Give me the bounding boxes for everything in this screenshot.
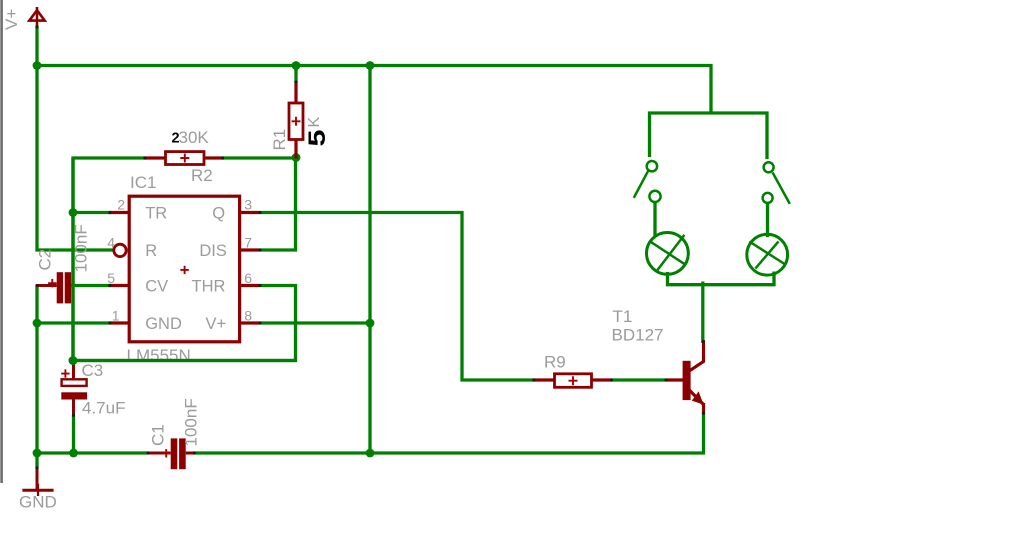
svg-text:TR: TR [145,205,167,223]
pin 8 stub [241,321,260,324]
pin 4 bubble [114,244,126,256]
svg-text:GND: GND [19,493,57,512]
svg-text:V+: V+ [206,315,227,333]
wire TR vertical redrawn over value text [71,158,74,362]
svg-text:30K: 30K [179,128,210,147]
capacitor C2 [36,272,71,303]
svg-text:5: 5 [107,270,115,286]
svg-text:GND: GND [145,315,182,333]
pin 5 stub [110,284,130,287]
node pin8 junction [366,319,375,328]
svg-text:3: 3 [244,197,252,213]
wire GND symbol drop [35,453,38,469]
svg-text:IC1: IC1 [130,173,156,192]
wire pin1 GND to left rail [37,321,111,324]
svg-text:4: 4 [107,235,115,251]
wire switch S1 to lamp LP1 [653,201,656,237]
wire R2 left down the TR net vertical [73,158,147,362]
svg-text:R2: R2 [191,166,213,185]
switch S1 [634,161,661,202]
node V+ rail left junction [33,61,42,70]
node TR junction [69,208,78,217]
pin 6 stub [241,284,260,287]
wire top V+ rail with corner down to lamp branch [37,66,711,114]
svg-text:2: 2 [117,197,125,213]
switch S2 [763,162,790,204]
svg-text:THR: THR [192,278,226,296]
svg-text:8: 8 [244,308,252,324]
capacitor C1 [148,438,195,469]
svg-text:R9: R9 [544,353,566,372]
svg-text:7: 7 [244,235,252,251]
wire lamp bus down to collector [701,282,704,344]
wire R2 right to R1 bottom junction [223,156,298,159]
svg-text:C2: C2 [36,249,55,271]
wire pin6 THR run down and left under IC [72,286,296,361]
node V+ bottom junction at x=370 [366,449,375,458]
svg-text:T1: T1 [613,307,633,326]
svg-text:CV: CV [145,278,168,296]
svg-text:100nF: 100nF [182,398,201,446]
node V+ rail x=370 junction [366,61,375,70]
wire lamp branch bus with drops to both switches [650,113,768,159]
lamp LP2 [747,234,788,275]
resistor R1 [289,81,303,159]
pin 3 stub [241,211,260,214]
lamp LP1 [647,233,689,275]
transistor T1 [666,341,704,414]
svg-text:5: 5 [304,130,331,147]
capacitor C3 (polarized) [61,359,87,416]
wire V+ stem to top rail [35,26,38,67]
svg-text:6: 6 [244,270,252,286]
pin 2 stub [110,211,130,214]
wire R1 top to rail [294,66,297,84]
wire left V+ rail down to pin4 R [37,64,113,250]
svg-text:1: 1 [112,308,120,324]
wire pin7 DIS up to R1 bottom [259,159,296,250]
svg-text:C3: C3 [82,361,104,380]
svg-text:DIS: DIS [199,242,227,260]
svg-text:R: R [145,242,157,260]
svg-text:R1: R1 [270,129,289,151]
junction dots [33,61,375,457]
node GND rail junction [33,449,42,458]
op-amp style IC1 LM555N box [110,196,260,342]
IC origin cross [180,266,188,274]
svg-text:C1: C1 [149,424,168,446]
svg-text:Q: Q [212,205,225,223]
wire THR horizontal redrawn over LM555N text [72,359,296,362]
node THR / C3 junction [69,356,78,365]
node THR / C3 junction redraw [69,356,78,365]
node R1 top junction [292,61,301,70]
wire Q pin3 run right, down and to R9 [259,213,535,381]
node GND pin1 junction [33,319,42,328]
svg-text:V+: V+ [2,9,21,30]
resistor R2 [145,152,224,165]
wire C3 bottom to GND rail [72,415,75,455]
wire V+ drop at x=370 from top rail to bottom rail [368,66,371,455]
node R1 bottom / R2 / DIS junction [292,153,301,162]
wire left GND vertical from C2 to bottom rail [35,286,38,455]
wire switch S2 to lamp LP2 [766,202,769,237]
wire lamp bottoms join bus [668,272,775,285]
wire pin5 CV to C2 [70,284,111,287]
pin 1 stub [110,321,130,324]
wire bottom rail C1 to GND corner [35,451,149,454]
pin 7 stub [241,248,260,251]
wire pin8 V+ to x=370 drop [259,321,371,324]
pin end ticks [36,26,705,470]
svg-text:4.7uF: 4.7uF [82,399,125,418]
svg-text:BD127: BD127 [612,326,664,345]
wire pin2 TR to vertical [73,211,111,214]
node C3 bottom junction [69,449,78,458]
svg-text:K: K [306,117,323,128]
wire R9 to transistor base [611,378,667,381]
power flag V+ [29,7,44,28]
resistor R9 [534,374,613,388]
ground symbol [22,468,53,497]
wire emitter down and bottom rail left to C1 [194,413,704,454]
